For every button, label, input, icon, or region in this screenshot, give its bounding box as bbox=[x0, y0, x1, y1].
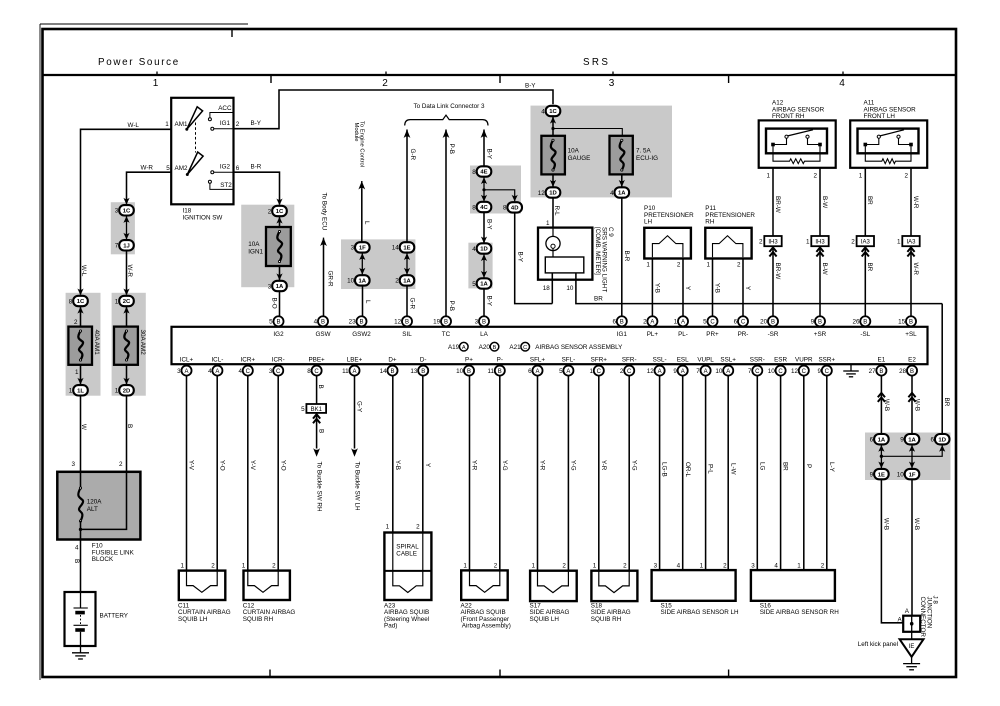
svg-text:D-: D- bbox=[420, 357, 427, 364]
junction dot and branch to 4D bbox=[482, 188, 485, 191]
assembly top pin 3 LA bbox=[479, 316, 489, 326]
svg-text:1A: 1A bbox=[618, 191, 626, 197]
svg-text:1: 1 bbox=[646, 262, 650, 269]
double arrow 4E-4C bbox=[483, 177, 485, 202]
svg-text:Y-G: Y-G bbox=[630, 460, 637, 471]
svg-text:7: 7 bbox=[115, 243, 119, 250]
svg-text:27: 27 bbox=[869, 368, 877, 375]
svg-text:11: 11 bbox=[487, 368, 494, 375]
svg-text:BR: BR bbox=[943, 398, 950, 407]
wire 1C to fuse IGN1 bbox=[279, 216, 281, 227]
svg-text:IA3: IA3 bbox=[861, 239, 871, 245]
svg-text:B: B bbox=[909, 320, 913, 326]
svg-text:W-R: W-R bbox=[126, 265, 133, 278]
svg-text:B: B bbox=[863, 320, 867, 326]
connector 1C (GAUGE) bbox=[546, 106, 561, 116]
svg-text:1D: 1D bbox=[480, 247, 488, 253]
wire inside block to ALT fuse bbox=[80, 472, 82, 488]
svg-text:4: 4 bbox=[774, 562, 778, 569]
ignition switch I18 box bbox=[171, 98, 233, 205]
inline connector 5 BK1 bbox=[306, 404, 326, 413]
wire Y-B D+ to spiral cable bbox=[392, 376, 394, 533]
assembly top pin 6 PR- bbox=[738, 316, 748, 326]
assembly internal ground bbox=[850, 364, 852, 371]
svg-text:2: 2 bbox=[395, 278, 399, 285]
wire W-R from ignition AM2 bbox=[127, 172, 172, 204]
svg-text:15: 15 bbox=[898, 319, 906, 326]
svg-text:GR-R: GR-R bbox=[326, 271, 333, 288]
svg-text:7: 7 bbox=[696, 368, 700, 375]
svg-text:19: 19 bbox=[433, 319, 441, 326]
svg-text:B: B bbox=[910, 369, 914, 375]
svg-text:10: 10 bbox=[347, 278, 355, 285]
svg-text:B-W: B-W bbox=[821, 196, 828, 208]
wire from pin2 to junction dot bbox=[81, 472, 127, 530]
svg-text:6: 6 bbox=[528, 368, 532, 375]
svg-text:5: 5 bbox=[703, 319, 707, 326]
svg-text:CABLE: CABLE bbox=[396, 551, 417, 558]
svg-text:Y-O: Y-O bbox=[279, 460, 286, 471]
svg-text:18: 18 bbox=[543, 285, 551, 292]
svg-text:B-Y: B-Y bbox=[516, 252, 523, 263]
svg-text:1A: 1A bbox=[403, 279, 411, 285]
svg-text:1: 1 bbox=[115, 298, 119, 305]
svg-text:B: B bbox=[771, 320, 775, 326]
svg-text:A: A bbox=[658, 369, 662, 375]
wire Y-R SFR+ to S18 bbox=[598, 376, 600, 571]
svg-text:C: C bbox=[825, 369, 830, 375]
svg-text:A: A bbox=[352, 369, 356, 375]
svg-text:Y-B: Y-B bbox=[394, 460, 401, 470]
svg-text:IH3: IH3 bbox=[768, 239, 778, 245]
shade behind junction connector cluster 1A/1D/1E/1F bbox=[865, 433, 951, 481]
svg-text:4: 4 bbox=[472, 246, 476, 253]
svg-text:1: 1 bbox=[859, 173, 863, 180]
svg-text:1: 1 bbox=[593, 562, 597, 569]
svg-text:AIRBAG SENSOR ASSEMBLY: AIRBAG SENSOR ASSEMBLY bbox=[535, 344, 623, 351]
assembly top pin 26 -SL bbox=[860, 316, 870, 326]
data link brace bbox=[405, 115, 488, 125]
svg-text:1: 1 bbox=[531, 562, 535, 569]
connector 2C bbox=[119, 296, 134, 306]
svg-text:IGN1: IGN1 bbox=[248, 248, 263, 255]
svg-text:LA: LA bbox=[480, 331, 489, 338]
airbag sensor assembly box bbox=[172, 327, 928, 364]
svg-text:W-L: W-L bbox=[80, 265, 87, 277]
svg-text:BR: BR bbox=[866, 263, 873, 272]
svg-text:2: 2 bbox=[851, 238, 855, 245]
wire B-Y from IG1 to GAUGE fuse bbox=[234, 90, 554, 129]
svg-text:2: 2 bbox=[494, 562, 498, 569]
svg-text:IH3: IH3 bbox=[815, 239, 825, 245]
wire AM2 to 2D bbox=[126, 365, 128, 385]
arrow into connector 1C (IGN1) bbox=[276, 199, 282, 206]
svg-text:SQUIB RH: SQUIB RH bbox=[243, 616, 274, 623]
svg-text:C: C bbox=[778, 369, 783, 375]
svg-text:BATTERY: BATTERY bbox=[100, 613, 129, 620]
wire W-R from A11 pin 2 bbox=[910, 168, 912, 236]
svg-text:13: 13 bbox=[410, 368, 418, 375]
svg-text:2C: 2C bbox=[123, 299, 131, 305]
svg-text:B: B bbox=[318, 429, 325, 433]
svg-text:12: 12 bbox=[394, 319, 402, 326]
svg-text:W-R: W-R bbox=[912, 196, 919, 209]
SRS warning light bulb bbox=[552, 228, 554, 237]
svg-text:ICL+: ICL+ bbox=[180, 357, 194, 364]
svg-text:P-: P- bbox=[497, 357, 503, 364]
wire 1A to pin LA bbox=[483, 289, 485, 317]
wire W-B from E2 bbox=[911, 376, 913, 435]
fuse 120A ALT bbox=[78, 488, 83, 521]
svg-text:PR-: PR- bbox=[738, 331, 749, 338]
svg-text:IG1: IG1 bbox=[220, 120, 231, 127]
svg-text:2: 2 bbox=[821, 562, 825, 569]
wire 4C to 1D bbox=[483, 212, 485, 243]
assembly top pin 1 PL- bbox=[678, 316, 688, 326]
connector 1C (IGN1) bbox=[272, 206, 287, 216]
svg-text:8: 8 bbox=[69, 298, 73, 305]
svg-text:9: 9 bbox=[811, 319, 815, 326]
wire 4D to combination meter pin 18 bbox=[515, 213, 553, 304]
wire AM1 to 1L bbox=[80, 365, 82, 385]
svg-text:PL-: PL- bbox=[678, 331, 688, 338]
assembly top pin 2 PL+ bbox=[647, 316, 657, 326]
svg-text:C: C bbox=[276, 369, 281, 375]
svg-text:B: B bbox=[126, 424, 133, 428]
wire ECU-IG to 1A bbox=[621, 174, 623, 187]
connector 1A (GSW2) bbox=[355, 275, 370, 285]
wire B-Y (LA) bbox=[483, 130, 485, 167]
svg-text:R-L: R-L bbox=[553, 206, 560, 217]
svg-text:10: 10 bbox=[715, 368, 723, 375]
svg-text:2: 2 bbox=[211, 562, 215, 569]
wire W-B 1F to junction connector J8 bbox=[911, 479, 913, 615]
svg-text:VUPL: VUPL bbox=[697, 357, 714, 364]
curtain airbag squib C12 bbox=[244, 571, 290, 600]
wire 1J to 2C bbox=[126, 251, 128, 295]
svg-text:RH: RH bbox=[705, 219, 715, 226]
svg-text:1: 1 bbox=[589, 368, 593, 375]
double arrow 1D-1A bbox=[483, 254, 485, 279]
svg-text:A: A bbox=[535, 369, 539, 375]
svg-text:P-B: P-B bbox=[448, 301, 455, 312]
svg-text:10A: 10A bbox=[248, 241, 260, 248]
svg-text:C: C bbox=[523, 345, 527, 351]
fuse 40A AM1 bbox=[68, 327, 92, 365]
svg-text:SSR+: SSR+ bbox=[818, 357, 835, 364]
svg-text:3: 3 bbox=[177, 368, 181, 375]
svg-text:+SR: +SR bbox=[814, 331, 827, 338]
wire B to fusible link block bbox=[126, 396, 128, 472]
svg-text:C: C bbox=[755, 369, 760, 375]
wire to GAUGE fuse bbox=[552, 129, 554, 136]
svg-text:2: 2 bbox=[643, 319, 647, 326]
svg-text:1: 1 bbox=[797, 562, 801, 569]
battery box bbox=[65, 592, 96, 646]
svg-text:ICR-: ICR- bbox=[272, 357, 285, 364]
svg-text:Y-O: Y-O bbox=[218, 460, 225, 471]
svg-text:PL+: PL+ bbox=[647, 331, 659, 338]
fuse 7.5A ECU-IG bbox=[610, 136, 633, 175]
svg-text:2: 2 bbox=[119, 461, 123, 468]
svg-text:BR-W: BR-W bbox=[774, 196, 781, 213]
svg-text:Y-B: Y-B bbox=[713, 283, 720, 293]
wire Y-V ICL+ to C11 bbox=[186, 376, 188, 571]
svg-text:1E: 1E bbox=[403, 246, 410, 252]
svg-text:1A: 1A bbox=[908, 437, 916, 443]
svg-text:A: A bbox=[650, 320, 654, 326]
svg-text:B: B bbox=[321, 320, 325, 326]
svg-text:LG: LG bbox=[758, 462, 765, 471]
svg-text:LG-B: LG-B bbox=[661, 462, 668, 477]
connector 1D (GAUGE) bbox=[546, 187, 561, 197]
svg-text:10: 10 bbox=[768, 368, 776, 375]
svg-text:To Buckle SW LH: To Buckle SW LH bbox=[354, 462, 361, 511]
fusible link block F10 bbox=[57, 472, 140, 540]
wire 1C to junction dot bbox=[552, 116, 554, 128]
svg-text:A: A bbox=[704, 369, 708, 375]
svg-text:SIL: SIL bbox=[402, 331, 412, 338]
assembly top pin 23 GSW2 bbox=[356, 316, 366, 326]
connector 2D bbox=[119, 385, 134, 395]
svg-text:20: 20 bbox=[760, 319, 768, 326]
svg-text:2: 2 bbox=[623, 562, 627, 569]
svg-text:1C: 1C bbox=[549, 109, 557, 115]
wire G-R (SIL) bbox=[406, 130, 408, 243]
svg-text:2: 2 bbox=[813, 173, 817, 180]
connector 1A (E1) bbox=[874, 434, 889, 444]
svg-text:SIDE AIRBAG SENSOR LH: SIDE AIRBAG SENSOR LH bbox=[661, 609, 739, 616]
svg-text:2: 2 bbox=[759, 238, 763, 245]
wire P10 pin1 Y-B bbox=[651, 259, 653, 317]
svg-text:A: A bbox=[215, 369, 219, 375]
combination meter box bbox=[538, 228, 592, 280]
svg-text:Y-G: Y-G bbox=[501, 460, 508, 471]
fuse 30A AM2 bbox=[114, 327, 138, 365]
wire W-B 1E to junction connector J8 bbox=[881, 479, 903, 623]
svg-text:CONNECTOR: CONNECTOR bbox=[919, 597, 926, 638]
curtain airbag squib C11 bbox=[179, 571, 226, 600]
assembly top pin 12 SIL bbox=[402, 316, 412, 326]
svg-text:1E: 1E bbox=[878, 472, 885, 478]
svg-text:11: 11 bbox=[342, 368, 349, 375]
svg-text:2: 2 bbox=[562, 562, 566, 569]
wire B to buckle SW RH bbox=[316, 413, 318, 449]
junction dot in F10 bbox=[79, 528, 82, 531]
wire R-L 1D to meter bbox=[552, 198, 554, 228]
svg-text:ICL-: ICL- bbox=[211, 357, 223, 364]
svg-text:1C: 1C bbox=[123, 209, 131, 215]
svg-text:C: C bbox=[710, 320, 715, 326]
svg-text:C: C bbox=[802, 369, 807, 375]
connector 1C (W-R) bbox=[119, 205, 134, 215]
svg-text:IG2: IG2 bbox=[273, 331, 284, 338]
column divider ticks on header line bbox=[270, 76, 272, 83]
svg-text:IGNITION SW: IGNITION SW bbox=[183, 214, 223, 221]
svg-text:AM2: AM2 bbox=[175, 165, 188, 172]
svg-text:W-R: W-R bbox=[912, 263, 919, 276]
header separator line bbox=[43, 74, 957, 76]
svg-text:1: 1 bbox=[242, 562, 246, 569]
svg-text:1: 1 bbox=[546, 220, 550, 227]
wire P10 pin2 Y bbox=[682, 259, 684, 317]
svg-text:B: B bbox=[421, 369, 425, 375]
svg-text:B: B bbox=[317, 385, 324, 389]
svg-text:IE: IE bbox=[909, 644, 915, 650]
wire Y-R SFL+ to S17 bbox=[537, 376, 539, 571]
svg-text:PBE+: PBE+ bbox=[308, 357, 325, 364]
wire Y D- to spiral cable bbox=[422, 376, 424, 533]
svg-text:5: 5 bbox=[472, 281, 476, 288]
arrow into connector 1C (W-R) bbox=[123, 198, 129, 205]
inline connector 2 IH3 bbox=[764, 236, 781, 246]
svg-text:8: 8 bbox=[503, 205, 507, 212]
svg-text:26: 26 bbox=[852, 319, 860, 326]
svg-text:2: 2 bbox=[382, 78, 388, 89]
svg-text:W-R: W-R bbox=[141, 165, 154, 172]
svg-text:B: B bbox=[467, 369, 471, 375]
svg-text:B-Y: B-Y bbox=[525, 83, 536, 90]
svg-text:4C: 4C bbox=[480, 205, 488, 211]
connector 4E bbox=[477, 166, 492, 176]
svg-text:ST2: ST2 bbox=[220, 182, 232, 189]
svg-text:1: 1 bbox=[897, 238, 901, 245]
svg-text:3: 3 bbox=[475, 319, 479, 326]
svg-text:1: 1 bbox=[153, 78, 159, 89]
svg-text:D+: D+ bbox=[388, 357, 397, 364]
svg-text:B-Y: B-Y bbox=[485, 296, 492, 307]
branch to ECU-IG fuse bbox=[553, 129, 622, 136]
svg-text:4E: 4E bbox=[480, 170, 487, 176]
wire B-W from A12 pin 2 bbox=[819, 168, 821, 236]
svg-text:ESL: ESL bbox=[677, 357, 689, 364]
svg-text:A21: A21 bbox=[509, 344, 521, 351]
svg-text:GSW: GSW bbox=[315, 331, 330, 338]
svg-text:10: 10 bbox=[456, 368, 464, 375]
meter pin 18 bbox=[551, 273, 553, 304]
svg-text:2: 2 bbox=[677, 262, 681, 269]
junction link E2 column bbox=[911, 444, 913, 469]
ignition switch lever AM1-IG1 bbox=[187, 107, 203, 130]
connector 1L bbox=[73, 385, 88, 395]
side airbag sensor S15 bbox=[652, 570, 736, 601]
svg-text:GSW2: GSW2 bbox=[352, 331, 371, 338]
svg-text:To Body ECU: To Body ECU bbox=[321, 193, 328, 231]
svg-text:SQUIB RH: SQUIB RH bbox=[591, 616, 622, 623]
svg-text:B: B bbox=[818, 320, 822, 326]
svg-text:2: 2 bbox=[236, 121, 240, 128]
wire IGN1 to 1A bbox=[279, 266, 281, 281]
svg-text:2: 2 bbox=[416, 524, 420, 531]
shade behind connectors 1D/1A bbox=[468, 243, 492, 289]
svg-text:B-R: B-R bbox=[623, 251, 630, 262]
svg-text:A19: A19 bbox=[448, 344, 460, 351]
svg-text:P-L: P-L bbox=[707, 464, 714, 474]
svg-text:E2: E2 bbox=[908, 357, 916, 364]
svg-text:1F: 1F bbox=[359, 246, 366, 252]
svg-text:-SL: -SL bbox=[860, 331, 870, 338]
svg-text:C: C bbox=[597, 369, 602, 375]
side airbag squib S17 bbox=[530, 571, 577, 601]
connector 1E (SIL) bbox=[400, 242, 415, 252]
assembly top pin 5 IG2 bbox=[273, 316, 283, 326]
shade behind connectors 1C/1J bbox=[111, 202, 135, 254]
svg-text:[COMB. METER]: [COMB. METER] bbox=[594, 227, 601, 275]
ground triangle IE bbox=[900, 639, 924, 657]
wire Y-O ICR- to C12 bbox=[277, 376, 279, 571]
connector 1A (E2) bbox=[905, 434, 920, 444]
svg-text:SSL-: SSL- bbox=[653, 357, 667, 364]
svg-text:4: 4 bbox=[610, 190, 614, 197]
svg-text:4: 4 bbox=[208, 368, 212, 375]
wire W-B from E1 bbox=[880, 376, 882, 435]
battery ground bbox=[80, 646, 82, 653]
svg-text:14: 14 bbox=[380, 368, 388, 375]
svg-text:A: A bbox=[726, 369, 730, 375]
svg-text:W-B: W-B bbox=[913, 518, 920, 530]
svg-text:B: B bbox=[276, 320, 280, 326]
svg-text:VUPR: VUPR bbox=[795, 357, 813, 364]
inline connector 1 IA3 bbox=[902, 236, 919, 246]
svg-text:C: C bbox=[627, 369, 632, 375]
svg-text:FRONT RH: FRONT RH bbox=[772, 113, 805, 120]
connector 1A (SIL) bbox=[400, 275, 415, 285]
svg-text:W-L: W-L bbox=[128, 122, 140, 129]
svg-text:FRONT LH: FRONT LH bbox=[864, 113, 896, 120]
svg-text:SFL+: SFL+ bbox=[530, 357, 546, 364]
connector 1E bbox=[874, 469, 889, 479]
svg-text:A: A bbox=[462, 345, 466, 351]
svg-text:W-B: W-B bbox=[882, 518, 889, 530]
svg-text:L: L bbox=[364, 300, 371, 304]
wire BR-W from A12 pin 1 bbox=[772, 168, 774, 236]
arrow into connector 2C bbox=[123, 289, 129, 296]
svg-text:IA3: IA3 bbox=[906, 239, 916, 245]
wires to side airbag sensor S16 bbox=[756, 376, 758, 571]
svg-text:5: 5 bbox=[301, 406, 305, 413]
svg-text:4: 4 bbox=[839, 78, 845, 89]
wire B PBE+ to BK1 bbox=[316, 376, 318, 405]
svg-text:8: 8 bbox=[472, 204, 476, 211]
svg-text:4D: 4D bbox=[511, 206, 519, 212]
svg-text:B-R: B-R bbox=[251, 164, 262, 171]
svg-text:SRS: SRS bbox=[583, 57, 610, 68]
svg-text:B: B bbox=[359, 320, 363, 326]
svg-text:10: 10 bbox=[566, 285, 574, 292]
svg-text:B: B bbox=[493, 345, 497, 351]
connector 4D bbox=[507, 202, 522, 212]
wire GAUGE to 1D bbox=[552, 174, 554, 187]
page frame outer offset lines bbox=[40, 23, 248, 25]
svg-text:1D: 1D bbox=[938, 437, 946, 443]
wire Y-G P- to A22 bbox=[499, 376, 501, 571]
svg-text:Y-R: Y-R bbox=[600, 460, 607, 471]
svg-text:9: 9 bbox=[673, 368, 677, 375]
svg-text:B: B bbox=[405, 320, 409, 326]
svg-text:BK1: BK1 bbox=[311, 407, 323, 413]
svg-text:1: 1 bbox=[69, 388, 73, 395]
svg-text:1C: 1C bbox=[77, 299, 85, 305]
svg-text:SFR-: SFR- bbox=[622, 357, 637, 364]
svg-text:8: 8 bbox=[307, 368, 311, 375]
svg-text:SFL-: SFL- bbox=[562, 357, 576, 364]
svg-text:ICR+: ICR+ bbox=[241, 357, 256, 364]
wire P11 pin1 Y-B bbox=[712, 259, 714, 317]
ground symbol left kick panel bbox=[911, 657, 913, 664]
svg-text:1: 1 bbox=[700, 562, 704, 569]
svg-text:5: 5 bbox=[559, 368, 563, 375]
shade behind connectors 4E/4C/4D bbox=[470, 166, 521, 214]
